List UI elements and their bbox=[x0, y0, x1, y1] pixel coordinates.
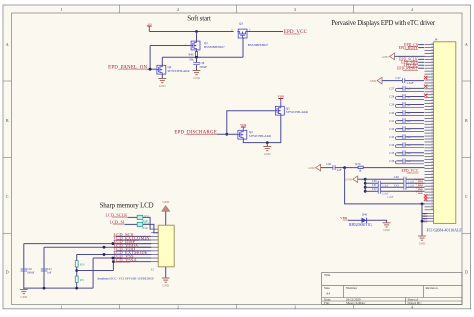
svg-text:1: 1 bbox=[61, 7, 63, 12]
svg-text:1: 1 bbox=[61, 305, 63, 309]
junction MH bbox=[421, 203, 424, 206]
title block bbox=[322, 273, 462, 305]
svg-text:SI7WCH3LAKR: SI7WCH3LAKR bbox=[249, 134, 272, 138]
svg-text:33k: 33k bbox=[189, 57, 194, 61]
no connect X bbox=[424, 85, 427, 88]
svg-text:Sheet1.SchDoc: Sheet1.SchDoc bbox=[346, 301, 366, 305]
capacitor C32 bbox=[405, 128, 424, 130]
junction discharge node bbox=[225, 133, 228, 136]
ground under Q4 bbox=[158, 79, 166, 83]
svg-text:1uF: 1uF bbox=[47, 270, 52, 274]
svg-text:C: C bbox=[6, 194, 9, 199]
junction gate node bbox=[149, 68, 152, 71]
svg-text:3: 3 bbox=[294, 7, 296, 12]
junction MH4 bbox=[421, 220, 424, 223]
ground D40 bbox=[383, 223, 391, 227]
svg-text:C33: C33 bbox=[389, 135, 395, 139]
transistor Q4 bbox=[156, 65, 166, 75]
svg-text:GND: GND bbox=[162, 283, 169, 287]
wire SI to pin2 bbox=[143, 224, 158, 232]
svg-text:VBR: VBR bbox=[340, 216, 348, 220]
capacitor C34 bbox=[405, 144, 424, 146]
svg-text:GND: GND bbox=[383, 228, 390, 232]
svg-text:Pervasive Displays EPD with eT: Pervasive Displays EPD with eTC driver bbox=[331, 20, 436, 27]
svg-text:C51: C51 bbox=[372, 184, 377, 187]
ground below J1 bbox=[162, 278, 170, 282]
resistor R40 bbox=[196, 51, 198, 52]
svg-text:C35: C35 bbox=[389, 151, 395, 155]
svg-text:Title: Title bbox=[324, 273, 331, 277]
svg-text:1uF: 1uF bbox=[407, 88, 412, 91]
svg-text:SI7WCH3LAKR: SI7WCH3LAKR bbox=[286, 110, 309, 114]
svg-text:VGL: VGL bbox=[415, 190, 422, 194]
svg-text:SI7WCH3LAKR: SI7WCH3LAKR bbox=[168, 69, 191, 73]
capacitor C50/C41 row VDH bbox=[365, 182, 378, 184]
transistor Q3 bbox=[237, 29, 247, 38]
svg-text:GND: GND bbox=[162, 200, 169, 204]
svg-text:100nF: 100nF bbox=[199, 65, 207, 69]
transistor Q2 bbox=[237, 130, 247, 140]
junction Q1 drain / rail bbox=[195, 30, 198, 33]
wire Q2/Q5 sources to ground rail bbox=[243, 116, 280, 143]
wire EPD_DISCHARGE to Q2 gate bbox=[217, 133, 237, 135]
svg-text:GND: GND bbox=[419, 241, 426, 245]
connector J4 body bbox=[434, 42, 456, 224]
svg-text:C36: C36 bbox=[389, 159, 395, 163]
capacitor C36 bbox=[405, 160, 424, 162]
svg-text:B: B bbox=[465, 118, 468, 123]
svg-text:EPD_BUSY: EPD_BUSY bbox=[399, 46, 419, 50]
wire ground bus vertical bbox=[364, 179, 366, 191]
ground arrow C37 bbox=[377, 77, 382, 84]
ground discharge bbox=[263, 147, 271, 151]
svg-text:C32: C32 bbox=[389, 127, 395, 131]
svg-text:Q3: Q3 bbox=[239, 22, 243, 26]
svg-text:R51: R51 bbox=[80, 279, 85, 282]
junction R50/R51 bbox=[75, 269, 78, 272]
svg-text:GND: GND bbox=[308, 166, 315, 170]
wire gate net down to Q4 gate node bbox=[149, 46, 151, 70]
svg-text:R70: R70 bbox=[355, 162, 361, 166]
capacitor C33 bbox=[405, 136, 424, 138]
svg-text:BSS308PE8627: BSS308PE8627 bbox=[248, 43, 269, 47]
svg-text:1k: 1k bbox=[358, 169, 362, 173]
wire to LCD_VSSA bbox=[112, 262, 114, 271]
svg-text:R40: R40 bbox=[188, 52, 194, 56]
capacitor C21 bbox=[41, 269, 47, 271]
svg-text:EPD_VCC: EPD_VCC bbox=[401, 169, 418, 173]
svg-text:1uF: 1uF bbox=[407, 104, 412, 107]
ground below J1 bbox=[165, 267, 167, 278]
no connect X lower bbox=[424, 194, 427, 197]
capacitor C29 bbox=[405, 104, 424, 106]
svg-text:VDR: VDR bbox=[240, 123, 246, 127]
wire MH1 bbox=[422, 213, 428, 215]
ground rail bottom bbox=[24, 287, 93, 289]
wire EPD_PANEL_ON to Q4 gate bbox=[147, 68, 156, 70]
capacitor C31 bbox=[405, 120, 424, 122]
svg-text:GND: GND bbox=[159, 84, 166, 88]
wire Q5 gate to discharge node bbox=[227, 111, 275, 135]
mounting pins MH1-MH4 bbox=[428, 214, 434, 222]
capacitor C46 bbox=[333, 165, 335, 170]
svg-text:1uF: 1uF bbox=[407, 160, 412, 163]
no connect X lower2 bbox=[424, 197, 427, 200]
svg-text:C31: C31 bbox=[389, 119, 395, 123]
ground arrow C46 bbox=[316, 164, 321, 171]
junction ground rail bbox=[266, 141, 269, 144]
ground LCD rail bbox=[20, 290, 28, 294]
connector J1 pin stubs bbox=[151, 229, 158, 262]
wire R50 rail to LCD_EXTMODE bbox=[76, 254, 78, 260]
junction C46/R70 bbox=[343, 166, 346, 169]
svg-text:LCD_SCLK: LCD_SCLK bbox=[105, 212, 127, 217]
svg-text:BSS308PE8627: BSS308PE8627 bbox=[204, 45, 225, 49]
svg-text:R50: R50 bbox=[80, 264, 85, 267]
svg-text:C34: C34 bbox=[389, 143, 395, 147]
svg-text:Revision: Revision bbox=[426, 286, 438, 290]
connector J4 pin stubs bbox=[425, 45, 434, 210]
connector J1 body bbox=[158, 225, 174, 267]
svg-text:EPD_VCC: EPD_VCC bbox=[284, 30, 308, 35]
ground under C38 bbox=[193, 71, 201, 75]
wire Q3 gate drop bbox=[242, 38, 244, 57]
capacitor C27 bbox=[405, 87, 424, 89]
svg-text:D: D bbox=[6, 269, 9, 274]
wire C20 rail to LCD_DISP row bbox=[23, 244, 25, 289]
svg-text:C46: C46 bbox=[326, 162, 332, 166]
resistor R52 bbox=[137, 215, 143, 219]
svg-text:C37: C37 bbox=[395, 76, 401, 80]
wire gnd to J1 top pin bbox=[165, 211, 167, 225]
svg-text:J1: J1 bbox=[151, 267, 154, 271]
wire Q4 source to ground bbox=[161, 75, 163, 79]
svg-text:A4: A4 bbox=[326, 292, 330, 296]
wire EPD_VCC node down to MH row bbox=[345, 168, 425, 204]
no connect X bbox=[424, 94, 427, 97]
wire Q3 drain to EPD_VCC bbox=[248, 31, 283, 33]
resistor R51 bbox=[75, 276, 78, 282]
capacitor C35 bbox=[405, 152, 424, 154]
svg-text:100nF: 100nF bbox=[27, 270, 35, 274]
svg-text:104R: 104R bbox=[142, 227, 148, 230]
no connect X bbox=[424, 76, 427, 79]
wire MH2 bbox=[422, 215, 428, 217]
svg-text:4: 4 bbox=[411, 305, 413, 309]
svg-text:File:: File: bbox=[324, 301, 330, 305]
svg-text:1uF: 1uF bbox=[407, 144, 412, 147]
wire rail down to Q1 drain bbox=[196, 32, 198, 41]
svg-text:Drawn By:: Drawn By: bbox=[408, 301, 422, 305]
svg-text:EPD_RESET: EPD_RESET bbox=[397, 67, 419, 71]
wire MH bus to ground bbox=[421, 204, 423, 236]
svg-text:GND: GND bbox=[382, 55, 389, 59]
svg-text:RB520S30T1G: RB520S30T1G bbox=[349, 223, 372, 227]
svg-text:1uF: 1uF bbox=[407, 128, 412, 131]
svg-text:1uF: 1uF bbox=[337, 168, 342, 172]
transistor Q1 bbox=[190, 40, 200, 50]
svg-text:GND: GND bbox=[193, 76, 200, 80]
svg-text:C52: C52 bbox=[372, 188, 377, 191]
capacitor C28 bbox=[405, 95, 424, 97]
svg-text:GND: GND bbox=[370, 79, 377, 83]
wire MH3 bbox=[422, 218, 428, 220]
svg-text:GND: GND bbox=[21, 295, 28, 299]
capacitor C30 bbox=[405, 112, 424, 114]
svg-text:1uF: 1uF bbox=[407, 136, 412, 139]
svg-text:2: 2 bbox=[177, 305, 179, 309]
svg-text:EPD_DISCHARGE: EPD_DISCHARGE bbox=[174, 131, 217, 136]
capacitor C20 bbox=[21, 269, 27, 271]
svg-text:C27: C27 bbox=[389, 87, 395, 91]
svg-text:C29: C29 bbox=[389, 103, 395, 107]
wire C21 rail to LCD_VDDA bbox=[43, 247, 45, 288]
svg-text:Amphenol ICC - FCI SFV10R-1STB: Amphenol ICC - FCI SFV10R-1STBE1HLF bbox=[97, 277, 154, 281]
svg-text:C: C bbox=[465, 194, 468, 199]
svg-text:1uF: 1uF bbox=[407, 96, 412, 99]
wire R divider to VSSA bbox=[77, 270, 114, 272]
transistor Q5 bbox=[274, 106, 284, 116]
svg-text:Number: Number bbox=[346, 286, 358, 290]
svg-text:4: 4 bbox=[411, 7, 413, 12]
wire SCLK to pin1 bbox=[143, 217, 152, 229]
wire gnd to pin bbox=[395, 55, 425, 57]
svg-text:1.2uF: 1.2uF bbox=[408, 184, 415, 187]
wire MH4 bbox=[422, 220, 428, 222]
svg-text:GND: GND bbox=[345, 178, 352, 182]
svg-text:D40: D40 bbox=[362, 212, 368, 216]
svg-text:VDR: VDR bbox=[277, 94, 285, 98]
capacitor C38 bbox=[196, 57, 198, 62]
svg-text:D: D bbox=[465, 269, 468, 274]
capacitor C52 row VGL bbox=[365, 190, 378, 192]
resistor R50 bbox=[75, 261, 78, 267]
wire node between R40/C38 and Q3 gate / Q4 drain bbox=[162, 56, 243, 58]
wire to LCD_VSS bbox=[92, 258, 94, 288]
svg-text:1.5uF: 1.5uF bbox=[407, 81, 414, 85]
wire +3V3 rail to Q3 pin2 bbox=[149, 31, 233, 33]
svg-text:C28: C28 bbox=[389, 95, 395, 99]
capacitor C51/C42 row VDL bbox=[365, 186, 378, 188]
svg-text:A: A bbox=[465, 42, 468, 47]
wire down to ground bbox=[266, 143, 268, 147]
svg-text:2: 2 bbox=[177, 7, 179, 12]
svg-text:1.2uF: 1.2uF bbox=[387, 196, 394, 199]
wire Q1 gate to left bbox=[150, 45, 190, 47]
svg-text:B: B bbox=[6, 118, 9, 123]
svg-text:1uF: 1uF bbox=[407, 120, 412, 123]
svg-text:1uF: 1uF bbox=[407, 112, 412, 115]
svg-text:Soft start: Soft start bbox=[187, 16, 211, 23]
ground arrow SPI bbox=[390, 53, 395, 60]
resistor R53 bbox=[137, 222, 143, 226]
svg-text:Sharp memory LCD: Sharp memory LCD bbox=[100, 203, 154, 210]
capacitor C40 row VGH bbox=[365, 178, 404, 180]
ground MH bbox=[418, 236, 426, 240]
svg-text:EPD_PANEL_ON: EPD_PANEL_ON bbox=[108, 65, 147, 70]
junction R40/C38 bbox=[195, 56, 198, 59]
ground arrow cluster bbox=[353, 176, 358, 183]
svg-text:3: 3 bbox=[294, 305, 296, 309]
svg-text:FCI 62684-40110ALF: FCI 62684-40110ALF bbox=[427, 229, 463, 233]
svg-text:A: A bbox=[6, 42, 9, 47]
wire down to Q4 drain bbox=[161, 57, 163, 65]
svg-text:C30: C30 bbox=[389, 111, 395, 115]
svg-text:GND: GND bbox=[264, 152, 271, 156]
svg-text:J4: J4 bbox=[435, 37, 438, 41]
svg-text:LCD_SI: LCD_SI bbox=[110, 219, 125, 224]
resistor R70 bbox=[358, 166, 363, 168]
svg-text:C40: C40 bbox=[394, 175, 400, 179]
svg-text:C50: C50 bbox=[372, 180, 377, 183]
svg-text:Size: Size bbox=[324, 286, 330, 290]
svg-text:1uF: 1uF bbox=[407, 152, 412, 155]
